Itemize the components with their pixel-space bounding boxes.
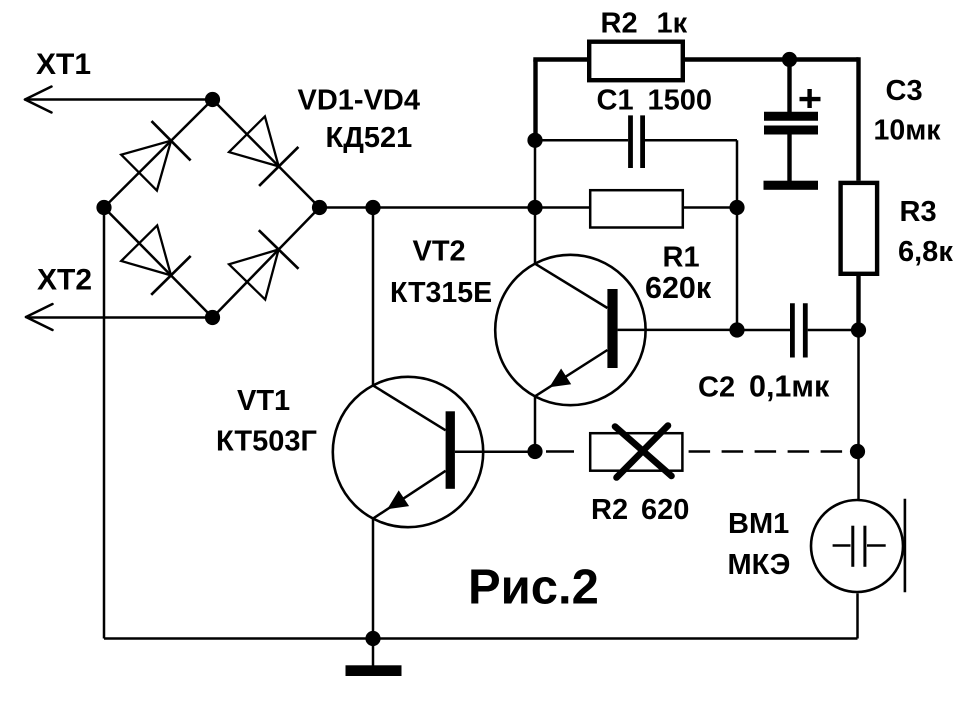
- capacitor C2 plate left: [790, 303, 795, 357]
- wire VT2 base lead: [618, 329, 737, 332]
- svg-text:ВМ1: ВМ1: [728, 508, 789, 540]
- capacitor C3 plus sign: [800, 89, 821, 108]
- wire bridge edge L-B: [104, 208, 213, 318]
- terminal XT2 arrowhead: [26, 304, 53, 330]
- wire BM1 bottom lead: [856, 593, 859, 638]
- ground C3 bar: [764, 181, 819, 190]
- wire left vertical: [103, 208, 106, 639]
- diode VD2 (upper right): [229, 116, 298, 185]
- wire bridge edge B-R: [213, 208, 320, 318]
- wire bridge edge T-R: [213, 100, 320, 208]
- svg-text:С3: С3: [886, 75, 923, 107]
- wire R1 right lead: [684, 206, 738, 209]
- node bridge top: [205, 92, 220, 107]
- wire ground stub: [372, 639, 375, 668]
- wire bottom rail: [104, 637, 858, 640]
- node BM1 top junction: [850, 444, 865, 459]
- svg-text:R1: R1: [663, 242, 700, 274]
- wire VT2 collector lead: [534, 208, 537, 264]
- svg-text:1к: 1к: [657, 8, 688, 40]
- node main/vertical junction: [527, 200, 542, 215]
- microphone BM1 circle: [811, 500, 903, 592]
- terminal XT1 arrowhead: [25, 87, 52, 113]
- resistor R2 620 (removed) box: [590, 433, 682, 471]
- node ground junction: [365, 631, 380, 646]
- svg-text:6,8к: 6,8к: [898, 236, 953, 268]
- wire R3 bottom lead: [856, 276, 860, 330]
- wire C3 top lead: [787, 60, 791, 113]
- wire C2 node to BM1: [857, 330, 860, 499]
- microphone BM1 membrane bar: [904, 499, 907, 593]
- microphone BM1 inner capacitor: [833, 526, 886, 567]
- wire C1 right lead: [645, 140, 737, 207]
- svg-text:R2: R2: [591, 494, 628, 526]
- svg-text:КТ315Е: КТ315Е: [390, 277, 492, 309]
- resistor R3 6.8k box: [841, 183, 878, 274]
- wire vertical R1-C2: [736, 208, 739, 331]
- node C3 top junction: [782, 52, 797, 67]
- diode VD4 (lower right): [229, 230, 299, 299]
- resistor R2 1k box: [589, 42, 683, 80]
- node C2 right junction: [851, 322, 866, 337]
- node bridge bottom: [205, 310, 220, 325]
- wire C2 right lead: [808, 329, 859, 332]
- wire C3 bottom lead: [787, 133, 791, 181]
- transistor VT2: [495, 255, 645, 405]
- svg-text:10мк: 10мк: [874, 114, 942, 146]
- svg-text:1500: 1500: [648, 85, 713, 117]
- wire top right corner: [790, 57, 859, 180]
- wire R2 right to C3 node: [685, 57, 790, 61]
- wire dashed left segment: [546, 450, 589, 453]
- diode VD1 (upper left): [121, 121, 190, 190]
- wire VT1 base lead: [455, 450, 535, 453]
- svg-text:Рис.2: Рис.2: [468, 561, 599, 615]
- resistor R1 620k box: [590, 190, 683, 227]
- diode VD3 (lower left): [121, 225, 191, 294]
- node bridge right: [312, 200, 327, 215]
- svg-text:С2: С2: [698, 372, 735, 404]
- svg-text:КТ503Г: КТ503Г: [216, 426, 317, 458]
- wire R2 left feed: [533, 60, 587, 141]
- svg-text:R2: R2: [601, 8, 638, 40]
- node C2 left junction: [729, 322, 744, 337]
- wire XT1 line: [25, 98, 213, 101]
- svg-text:МКЭ: МКЭ: [728, 549, 791, 581]
- wire vertical C1-main: [534, 140, 537, 207]
- wire XT2 line: [27, 316, 213, 319]
- svg-text:XT1: XT1: [36, 48, 91, 81]
- svg-text:0,1мк: 0,1мк: [749, 370, 830, 404]
- svg-text:VT1: VT1: [237, 385, 290, 417]
- capacitor C1 plate left: [628, 115, 633, 168]
- node VT1 collector junction: [365, 200, 380, 215]
- capacitor C3 plate top: [764, 112, 818, 121]
- wire dashed right segment: [689, 450, 858, 453]
- node R1 right junction: [729, 200, 744, 215]
- cross-out X over R2 620: [615, 426, 672, 478]
- node bridge left: [96, 200, 111, 215]
- capacitor C2 plate right: [803, 303, 808, 357]
- wire bridge edge L-T: [104, 100, 213, 208]
- ground symbol: [346, 665, 402, 676]
- wire main horizontal: [320, 206, 590, 209]
- svg-text:620: 620: [641, 494, 689, 526]
- node VT1 base / VT2 emitter junction: [527, 444, 542, 459]
- wire C1 left lead: [535, 139, 628, 142]
- svg-text:620к: 620к: [645, 271, 712, 305]
- svg-text:VT2: VT2: [413, 236, 466, 268]
- transistor VT1: [333, 377, 483, 527]
- svg-text:VD1-VD4: VD1-VD4: [298, 85, 421, 117]
- svg-text:КД521: КД521: [326, 122, 413, 154]
- capacitor C1 plate right: [640, 115, 645, 168]
- capacitor C3 plate bottom: [764, 126, 818, 135]
- node C1 left junction: [527, 133, 542, 148]
- wire VT1 collector lead: [372, 208, 375, 386]
- svg-text:С1: С1: [597, 85, 634, 117]
- wire C2 left lead: [737, 329, 790, 332]
- wire VT2 emitter lead: [534, 396, 537, 451]
- svg-text:R3: R3: [900, 196, 937, 228]
- wire VT1 emitter lead: [372, 518, 375, 638]
- svg-text:XT2: XT2: [37, 264, 92, 297]
